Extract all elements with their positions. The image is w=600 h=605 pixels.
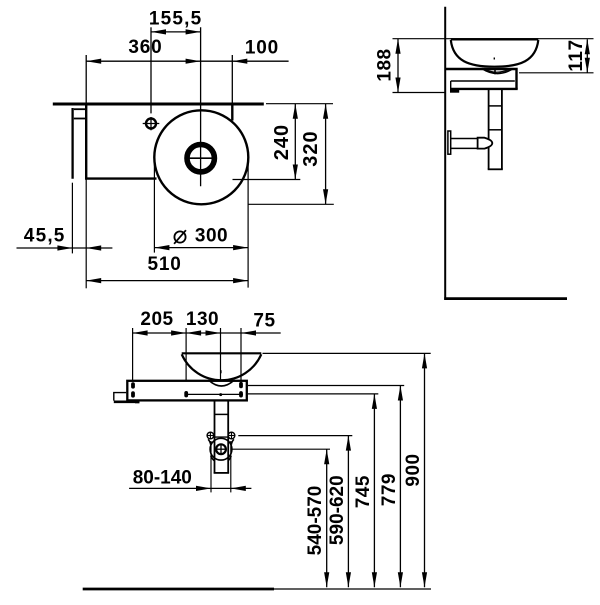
svg-text:510: 510 xyxy=(148,254,182,275)
svg-text:745: 745 xyxy=(353,475,374,508)
svg-text:130: 130 xyxy=(186,309,219,330)
svg-text:80-140: 80-140 xyxy=(133,468,192,489)
svg-text:779: 779 xyxy=(379,473,400,506)
svg-text:188: 188 xyxy=(374,48,395,81)
svg-text:45,5: 45,5 xyxy=(24,225,66,246)
svg-text:590-620: 590-620 xyxy=(327,475,348,545)
svg-text:320: 320 xyxy=(300,130,322,166)
svg-text:360: 360 xyxy=(128,37,162,58)
svg-text:155,5: 155,5 xyxy=(149,9,203,30)
svg-text:205: 205 xyxy=(140,309,173,330)
svg-text:240: 240 xyxy=(271,124,293,160)
svg-text:300: 300 xyxy=(195,225,228,246)
svg-text:117: 117 xyxy=(566,39,587,71)
svg-text:900: 900 xyxy=(403,453,424,486)
svg-text:75: 75 xyxy=(253,311,275,332)
svg-text:540-570: 540-570 xyxy=(305,486,326,556)
svg-text:100: 100 xyxy=(245,37,279,58)
